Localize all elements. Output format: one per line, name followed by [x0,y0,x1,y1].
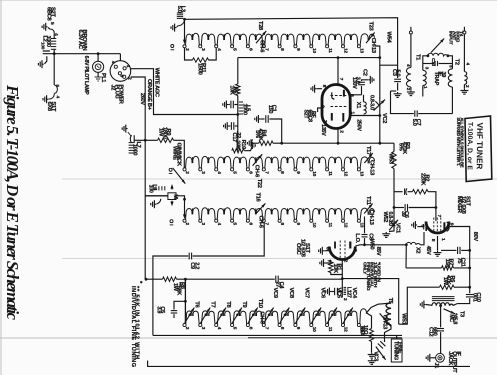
choke L3 5.0 with ground hook [183,18,186,21]
svg-text:VC7: VC7 [304,288,310,298]
svg-text:TUNING: TUNING [392,341,398,360]
T3 center tap [439,304,442,307]
svg-text:10: 10 [311,223,317,228]
wire pin7 feed [435,208,437,222]
T4 balun winding with slug arrow [410,34,412,68]
svg-text:3.9: 3.9 [156,306,162,313]
resistor R10 1K (mixer grid) [394,191,403,193]
choke L2 1000 [53,50,55,54]
osc box bottom [153,334,402,336]
mixer plate output wire [448,227,470,294]
svg-text:10: 10 [311,48,317,53]
drive box to chain3 [176,196,185,200]
svg-text:10K: 10K [235,140,241,151]
junction C8 [363,243,366,246]
svg-text:12: 12 [343,223,349,228]
svg-text:13: 13 [359,48,365,53]
svg-text:C13: C13 [430,58,436,67]
svg-text:PL1: PL1 [100,73,106,82]
svg-text:11: 11 [327,223,333,228]
junction X2 / R7 [405,243,408,246]
svg-text:5.0: 5.0 [176,6,182,13]
svg-text:W50: W50 [369,239,375,250]
junction C6 right [435,206,438,209]
svg-text:VC6: VC6 [320,288,326,299]
svg-text:6.3V AC: 6.3V AC [77,30,83,50]
svg-text:C2: C2 [361,69,367,76]
svg-text:12: 12 [343,171,349,176]
svg-text:6BC8: 6BC8 [46,7,52,22]
svg-text:6X8: 6X8 [46,102,52,112]
trimmer VC1 [389,208,394,232]
svg-text:C9: C9 [189,262,195,269]
svg-text:J2: J2 [109,85,115,91]
resistor R7 15K [454,267,470,269]
capacitor C5 3.9 [174,301,185,309]
svg-text:VC8: VC8 [288,288,294,299]
svg-text:L2: L2 [42,36,48,42]
svg-text:1W: 1W [442,277,448,286]
svg-text:VHF TUNER: VHF TUNER [475,122,484,169]
svg-text:OSC: OSC [295,243,301,256]
osc pin2 lead down [341,260,343,279]
svg-text:45V: 45V [425,246,431,255]
junction C1/R4 [280,142,283,145]
svg-text:100: 100 [148,185,154,193]
tube plates/cathodes bars [343,90,345,97]
junction tube grid feed [337,56,340,59]
wire from AGC bus corner down [237,58,239,84]
power plug J2 [119,54,121,61]
T23 slug arrow CH-13 (chain1 right) [366,33,375,44]
svg-text:85V: 85V [375,247,381,256]
coil X2 [406,242,420,244]
svg-text:VC2: VC2 [381,113,387,123]
svg-text:T11: T11 [365,196,371,206]
choke L5 1000 [239,101,243,103]
junction tube cathode [337,142,340,145]
svg-text:0.8-3.0: 0.8-3.0 [387,212,393,227]
svg-text:75: 75 [456,258,462,264]
switch wafer coil chain 3 T16/T11 [186,208,200,220]
svg-text:6-8V PILOT LAMP: 6-8V PILOT LAMP [83,56,89,96]
svg-text:10: 10 [311,171,317,176]
trimmer VC2 [374,100,385,111]
svg-text:39: 39 [400,211,406,217]
svg-text:ONLY: ONLY [361,262,367,275]
svg-text:JACK: JACK [447,351,453,366]
svg-text:VC1: VC1 [395,223,401,233]
svg-text:T10: T10 [257,299,263,308]
svg-text:135V: 135V [320,124,326,136]
junction osc cathode [341,277,344,280]
junction VC2 line [378,142,381,145]
osc pin3/grid line to X2 [355,245,364,246]
svg-text:T5: T5 [387,298,393,304]
choke L1 27 with bypass [341,279,343,297]
pin 1 lead to VC2 node [350,115,380,117]
pin 8 lead to ground [317,88,322,90]
wire AGC bus y=57.6 [238,57,380,59]
junction VC2 [378,114,381,117]
capacitor C8 [364,217,366,234]
svg-text:CH-6: CH-6 [259,40,265,53]
antenna terminal right [463,31,466,34]
pin 7 lead [337,58,339,85]
svg-text:W53: W53 [388,153,394,164]
junction pilot lamp [97,52,100,55]
T17 slug arrow CH-13 (chain2 right) [364,153,372,163]
svg-text:13: 13 [359,223,365,228]
svg-text:T23: T23 [368,22,374,32]
svg-text:T-100A, D, or E: T-100A, D, or E [466,122,474,171]
neutralizing loop with C7 5.0 [391,91,414,114]
svg-text:VC9: VC9 [272,288,278,299]
resistor R11 1500 across chain1 terminals 2-4 [185,48,193,60]
mixer bottom leads [437,236,439,251]
drive box M [168,193,176,200]
resistor R3 470K 5% [393,143,395,151]
svg-text:220K: 220K [420,173,426,186]
pin 2 lead down [337,129,339,144]
svg-text:27: 27 [275,282,281,288]
svg-text:Figure 5. T-100A, D or E Tuner: Figure 5. T-100A, D or E Tuner Schematic [3,84,22,320]
svg-text:1W: 1W [158,128,164,137]
svg-text:X1: X1 [355,102,361,108]
svg-text:J1: J1 [433,363,439,369]
chain 1 rotor contact [171,45,174,48]
resistor R1 10K [324,262,326,264]
T28 slug arrow CH-6 (chain1 left) [256,31,266,43]
svg-text:12: 12 [343,48,349,53]
IF output jack J1 [436,353,445,362]
capacitor C17 .22 [235,125,238,127]
svg-text:1000: 1000 [241,104,247,115]
choke L4 cluster [145,195,168,197]
capacitor + ground at left end of bus [43,50,50,52]
T2 primary winding [448,69,452,87]
capacitor C12 680 [440,306,442,328]
svg-text:WS1: WS1 [400,313,406,324]
chain 1 feed arrow from L3 node [184,19,186,40]
resistor R6 47K 1W [454,286,470,288]
FINE TUNING box [391,339,402,362]
resistor R4 470K 5% [251,142,253,144]
junction AGC / L5 [236,113,239,116]
svg-text:T3: T3 [458,311,464,317]
svg-text:T1: T1 [415,54,421,60]
svg-text:ORANGE B+: ORANGE B+ [146,79,152,111]
capacitor C3 5.0 to ground [397,65,399,78]
resistor R10 10K to ground [232,149,245,153]
svg-text:T17: T17 [365,146,371,155]
W54 link [380,64,398,66]
junction C5 [184,300,187,303]
svg-text:1000: 1000 [132,144,138,155]
junction C6 left [393,206,396,209]
svg-text:001: 001 [471,293,477,302]
chain 2 rotor contact and wiper arm [169,168,172,171]
pin 9 lead [318,108,323,112]
svg-text:MC: MC [448,314,454,322]
bypass L7 1000 with cap to ground [134,139,145,141]
mixer grids dashed [433,218,435,234]
svg-text:X2: X2 [414,247,420,253]
T1 primary winding [406,68,410,88]
svg-text:M: M [172,194,178,199]
svg-text:10K: 10K [228,85,234,96]
trimmer VC3 [385,325,392,342]
svg-text:11: 11 [327,327,333,332]
capacitor C10 [466,294,474,296]
svg-text:W54: W54 [385,32,391,44]
switch wafer coil chain 1 T28/T23 [186,33,200,45]
mixer grid cap to ground [425,223,427,232]
svg-text:12: 12 [343,327,349,332]
svg-text:5.0: 5.0 [394,70,400,77]
svg-text:11: 11 [327,48,333,53]
VHF TUNER title box [465,116,492,182]
svg-text:11: 11 [327,171,333,176]
junction B+ bottom [145,278,148,281]
pilot lamp PL1 [97,54,99,62]
svg-text:5%: 5% [398,143,404,151]
resistor R9 1800 1W [145,139,157,141]
chain 3 rotor contact [170,220,173,223]
osc section box left/top with C9 [153,256,188,335]
T4 legs [423,56,428,71]
T22 slug arrow CH-6 (chain2 left) [253,154,263,166]
junction heater bus [53,52,56,55]
svg-text:10K: 10K [332,264,338,275]
osc pin6 ground [324,250,330,252]
transformer T3 core [432,296,455,298]
heater winding S1T 6X8 lower [53,54,55,85]
svg-text:CH-13: CH-13 [382,315,388,329]
svg-text:T28: T28 [257,21,263,31]
svg-text:CH-6: CH-6 [258,311,264,324]
wire chain1 end down to W54 node [374,46,379,143]
switch wafer coil chain 2 T22/T17 [186,156,200,168]
svg-text:250V: 250V [356,119,362,131]
svg-text:80V: 80V [472,232,478,242]
tube V1 6BC8 RF amplifier envelope [322,85,350,129]
svg-text:VC5: VC5 [335,288,341,299]
svg-text:13: 13 [359,171,365,176]
tube grids (dashed) [331,95,347,97]
svg-text:1W: 1W [172,283,178,292]
mixer cathode bar [443,222,445,231]
svg-text:T7: T7 [209,301,215,307]
T16 slug arrow CH-6 (chain3 left) [256,203,266,213]
trap capacitor C13 [423,63,434,65]
T1 secondary winding [423,70,426,85]
svg-text:T2: T2 [454,59,460,65]
svg-text:CH-13: CH-13 [368,210,374,226]
wire 6.3V AC bus [43,53,121,55]
svg-text:1500: 1500 [196,63,202,75]
resistor R5 10K [236,84,240,96]
top bus wire to W54 corner [185,18,398,65]
T11 slug arrow CH-13 (chain3 right) [364,204,372,214]
svg-text:5%: 5% [254,130,260,138]
wire white AGC from plug [131,69,238,115]
junction B+ / R9 / L7 [144,139,147,142]
bottom border [148,361,470,367]
tube V3 1/2 6X8 oscillator envelope [329,247,355,260]
svg-text:130V: 130V [351,77,357,89]
heater winding S2T 6BC8 (pin5-4) [53,33,55,38]
svg-text:100: 100 [39,42,45,50]
svg-text:0.8-3.0: 0.8-3.0 [369,95,375,110]
antenna terminal left [409,31,412,34]
svg-text:CH-13: CH-13 [369,160,375,176]
svg-text:CH-6: CH-6 [253,165,259,178]
svg-text:CH-6: CH-6 [258,216,264,229]
T5 osc coil [366,303,391,314]
svg-text:INDIVIDUAL FINE TUNING: INDIVIDUAL FINE TUNING [130,286,136,368]
coil X1 [364,102,367,114]
grid return wire [282,142,394,144]
chain 4 (fine tuning wafer, bottom) [186,311,200,324]
chain4 feed from R8 node [184,279,186,324]
svg-text:L.O.: L.O. [354,233,360,243]
pin 6 lead / C2 branch [350,94,361,96]
svg-text:5.0: 5.0 [411,119,417,126]
tube V2 1/2 6X8 mixer envelope [426,222,449,234]
chain4 end segment / resistor R6A 10ohm to ground [360,309,367,324]
T2 secondary winding [464,72,467,85]
T3 winding [432,303,454,306]
wire orange B+ from plug [131,77,146,279]
svg-text:R6A: R6A [359,326,365,336]
svg-text:TRAP: TRAP [433,72,439,86]
svg-text:10: 10 [311,327,317,332]
osc internal bars [334,242,336,249]
page crease lines [62,178,497,180]
svg-text:15K: 15K [444,259,450,270]
svg-text:T16: T16 [255,193,261,203]
svg-text:INPUT: INPUT [448,31,454,45]
svg-text:C12: C12 [428,327,434,337]
junction W54 [378,56,381,59]
svg-text:WHITE AGC: WHITE AGC [153,68,159,97]
capacitor C1 150 [258,118,260,120]
chain 3 feed arrow [184,199,186,215]
svg-text:SUFFIXED WITH LETTER T.: SUFFIXED WITH LETTER T. [456,118,461,166]
svg-text:VC3: VC3 [372,351,378,361]
capacitor C11 cathode bypass [461,249,470,251]
svg-text:MIXER: MIXER [456,196,462,214]
svg-text:260V: 260V [139,93,145,105]
svg-text:S2T: S2T [303,110,309,120]
bypass cap at L5 node [234,104,238,106]
svg-text:WIRE: WIRE [171,146,177,160]
capacitor C4 27 [275,276,277,283]
svg-text:T22: T22 [256,179,262,188]
svg-text:150: 150 [267,105,273,114]
